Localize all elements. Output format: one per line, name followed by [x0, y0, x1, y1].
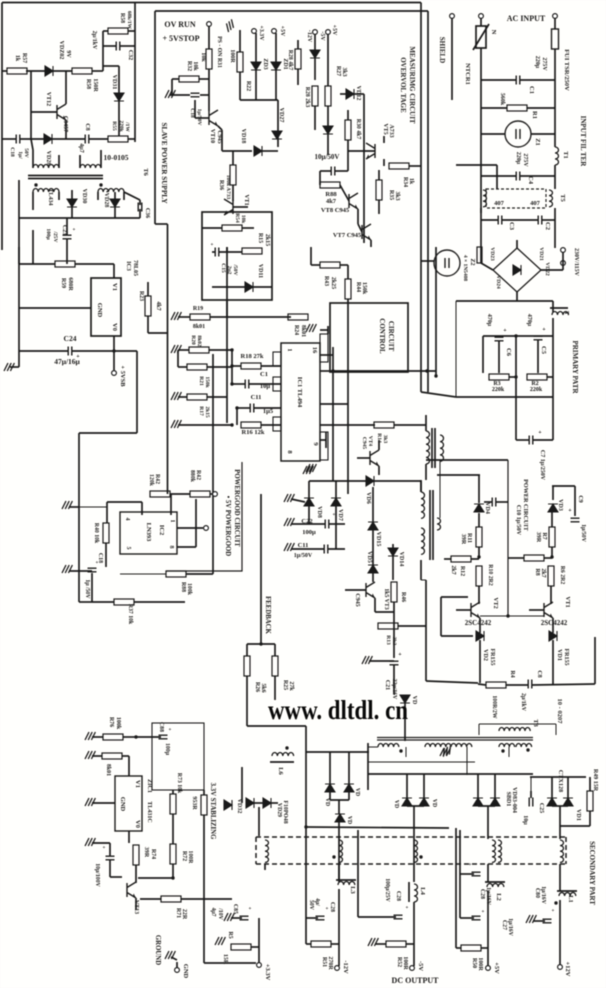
svg-text:C25: C25 [538, 803, 544, 813]
wire [542, 219, 555, 221]
svg-text:C28: C28 [479, 889, 485, 899]
svg-text:INPUT FIL TER: INPUT FIL TER [579, 116, 587, 168]
wire [246, 676, 248, 726]
wire [484, 501, 492, 503]
capacitor C28 4u/50V [316, 916, 325, 920]
svg-text:MEASURIMG CIRCUIT: MEASURIMG CIRCUIT [408, 46, 416, 124]
ground [223, 19, 236, 32]
wire [237, 407, 250, 409]
wire [530, 791, 532, 798]
svg-text:R1: R1 [531, 111, 538, 119]
wire [258, 807, 260, 836]
svg-text:100k: 100k [115, 717, 121, 730]
svg-text:OV RUN: OV RUN [164, 20, 195, 29]
svg-text:PS - ON R31: PS - ON R31 [216, 36, 222, 68]
wire [120, 45, 135, 47]
wire [333, 370, 408, 372]
svg-text:R58: R58 [119, 13, 125, 23]
wire [181, 898, 232, 900]
diode SBD1b [490, 798, 500, 806]
wire [32, 150, 34, 168]
wire [226, 247, 228, 423]
svg-text:AC INPUT: AC INPUT [507, 14, 546, 23]
wire [345, 589, 366, 591]
svg-text:C18: C18 [9, 147, 15, 157]
svg-text:100k A733: 100k A733 [225, 175, 231, 200]
wire [533, 439, 553, 441]
svg-text:C8: C8 [84, 123, 90, 130]
resistor R3 220k [489, 374, 509, 380]
resistor R42 880k [190, 491, 210, 497]
resistor R58 68k/1W [108, 28, 128, 34]
svg-text:R51: R51 [321, 957, 327, 967]
wire [567, 777, 569, 798]
diode VD29b [263, 798, 271, 808]
diode VD18 [254, 146, 262, 156]
IC U1 TL494 [281, 343, 320, 461]
wire [135, 881, 137, 883]
wire [136, 351, 138, 433]
wire [170, 94, 190, 96]
core T6 [28, 175, 103, 177]
svg-text:/10V: /10V [217, 907, 223, 920]
svg-text:+3.3V: +3.3V [258, 25, 264, 41]
resistor R58 150R [72, 68, 92, 74]
svg-text:78L05: 78L05 [132, 260, 138, 276]
svg-text:953R: 953R [191, 796, 197, 810]
wire [135, 898, 137, 910]
svg-text:C1: C1 [528, 86, 535, 94]
svg-text:R34: R34 [402, 177, 408, 187]
wire [306, 827, 449, 828]
svg-text:150k: 150k [361, 282, 367, 295]
svg-text:2μ/1kV: 2μ/1kV [91, 31, 97, 50]
wire [425, 415, 427, 431]
svg-text:R5: R5 [227, 931, 233, 938]
wire [479, 618, 481, 633]
wire [552, 318, 554, 336]
svg-text:C11: C11 [298, 542, 309, 549]
ground [362, 656, 372, 664]
varistor Z2 [434, 250, 460, 276]
wire [178, 424, 232, 426]
capacitor C18 [331, 167, 335, 176]
wire [255, 70, 257, 100]
wire [232, 185, 234, 201]
svg-text:68k/1W: 68k/1W [126, 11, 132, 30]
svg-text:8k01: 8k01 [193, 324, 205, 330]
wire [347, 151, 349, 171]
wire [437, 474, 480, 476]
box powergood [166, 462, 242, 571]
svg-text:GND: GND [119, 797, 126, 812]
wire [138, 877, 173, 879]
ground [165, 90, 175, 98]
wire [483, 335, 553, 337]
wire [555, 724, 557, 735]
node +12V [558, 965, 563, 970]
diode VD [335, 814, 345, 822]
wire [202, 227, 222, 229]
wire [589, 777, 591, 791]
svg-text:C18: C18 [189, 108, 195, 118]
svg-text:C4: C4 [527, 176, 534, 185]
svg-text:ZD3: ZD3 [262, 58, 268, 69]
svg-text:L3: L3 [349, 886, 356, 894]
diode VD5 [368, 565, 378, 573]
resistor R10 2R2 [476, 566, 482, 586]
resistor R54 10k [222, 225, 242, 231]
choke winding [265, 840, 269, 862]
wire [383, 159, 385, 166]
svg-text:4k7: 4k7 [326, 198, 337, 205]
wire [291, 548, 324, 550]
wire [393, 602, 395, 612]
ground [85, 838, 95, 846]
wire [154, 11, 156, 224]
wire [440, 597, 442, 636]
svg-text:120k: 120k [148, 474, 154, 487]
svg-text:TL434: TL434 [47, 188, 53, 205]
svg-text:R28 2k3: R28 2k3 [304, 87, 310, 108]
svg-text:R13: R13 [385, 635, 391, 645]
diode VD12 [346, 89, 354, 99]
wire [527, 107, 555, 109]
wire [487, 806, 489, 839]
junction [304, 825, 307, 828]
capacitor C8 4u7 [85, 135, 89, 144]
diode VD [400, 695, 410, 703]
wire [552, 397, 554, 440]
wire [551, 512, 553, 527]
svg-text:880k: 880k [189, 470, 195, 483]
junction [134, 735, 137, 738]
transformer T6 primary [33, 165, 59, 169]
svg-text:VT5: VT5 [382, 123, 388, 134]
svg-text:VD14: VD14 [398, 552, 404, 567]
svg-text:+: + [468, 862, 471, 868]
svg-text:LN393: LN393 [145, 523, 152, 543]
capacitor C6 470u [495, 337, 504, 341]
capacitor C18 1u/50V [88, 568, 97, 572]
coil [483, 190, 487, 207]
wire [102, 31, 104, 71]
svg-text:C1: C1 [260, 371, 268, 378]
svg-text:VD21: VD21 [538, 247, 544, 261]
resistor R72 100R [170, 844, 176, 864]
wire [297, 40, 299, 49]
svg-text:VD11: VD11 [257, 264, 263, 278]
svg-text:1μ/50V: 1μ/50V [294, 553, 313, 559]
wire [247, 725, 306, 727]
svg-text:VD30: VD30 [81, 189, 87, 204]
wire [135, 844, 137, 846]
wire [559, 900, 561, 965]
diode VD15 [368, 522, 378, 530]
wire [18, 180, 20, 264]
resistor R35 3k3 [376, 180, 382, 200]
wire [203, 790, 205, 795]
wire [260, 494, 262, 644]
wire [311, 264, 320, 266]
wire [128, 138, 135, 140]
svg-text:C3: C3 [508, 222, 515, 231]
ground [284, 543, 294, 551]
resistor R71 22R [161, 896, 181, 902]
resistor R14 3k3 [374, 422, 394, 428]
diode VD2 FR155 [476, 631, 484, 641]
wire [305, 752, 307, 827]
wire [114, 192, 116, 199]
svg-text:39R: 39R [143, 847, 149, 858]
resistor R16 12k [241, 422, 261, 428]
wire [10, 366, 19, 368]
wire [320, 424, 375, 426]
wire [554, 208, 556, 231]
wire [552, 301, 554, 312]
junction [550, 555, 553, 558]
wire [128, 831, 130, 843]
wire [320, 370, 333, 372]
svg-text:N: N [490, 30, 497, 35]
transistor VT1 A733 [224, 199, 233, 215]
wire [221, 130, 223, 151]
svg-text:+: + [551, 908, 554, 914]
svg-text:R25: R25 [282, 680, 288, 690]
wire [136, 736, 161, 738]
wire [478, 805, 495, 807]
wire [327, 106, 329, 126]
wire [306, 751, 369, 753]
svg-text:VD23: VD23 [489, 247, 495, 261]
wire [496, 165, 498, 189]
ground [171, 392, 181, 400]
svg-text:VD27: VD27 [278, 108, 284, 123]
svg-text:39R: 39R [535, 532, 541, 543]
svg-text:1k5 VT3: 1k5 VT3 [383, 588, 389, 609]
wire [408, 370, 436, 372]
wire [398, 625, 426, 627]
wire [421, 579, 426, 581]
wire [320, 354, 333, 356]
svg-text:VD22: VD22 [544, 262, 550, 276]
resistor R6 2R2 [548, 566, 554, 586]
resistor R74 39R [133, 845, 139, 865]
svg-text:VT12: VT12 [45, 92, 51, 106]
svg-text:T: T [563, 311, 570, 316]
wire [249, 383, 281, 385]
wire [262, 150, 278, 152]
wire [478, 684, 486, 685]
wire [212, 286, 245, 288]
svg-text:VD15: VD15 [375, 532, 381, 547]
diode VD4 [474, 504, 484, 512]
box [202, 212, 272, 300]
svg-text:C8: C8 [536, 670, 542, 677]
wire [478, 724, 480, 735]
resistor R73 10k [170, 794, 176, 814]
wire [19, 263, 55, 265]
wire [471, 558, 479, 560]
junction [331, 369, 334, 372]
dot [332, 855, 335, 858]
svg-text:50V: 50V [23, 148, 29, 158]
wire [554, 231, 556, 248]
wire [212, 251, 215, 253]
svg-text:407: 407 [494, 200, 505, 207]
svg-text:R30 4k7: R30 4k7 [355, 119, 361, 140]
resistor R19 8k01 [190, 314, 210, 320]
transistor VT3 C945 [366, 582, 375, 598]
wire [480, 231, 482, 263]
wire [255, 33, 257, 62]
wire [264, 864, 266, 870]
wire [407, 805, 424, 807]
wire [494, 774, 496, 798]
wire [481, 133, 505, 135]
svg-text:2k15: 2k15 [264, 234, 270, 246]
resistor R57 1k [7, 68, 27, 74]
wire [135, 865, 137, 883]
transformer T5 [486, 189, 546, 208]
wire [195, 499, 197, 547]
wire [258, 918, 260, 963]
wire [327, 134, 329, 155]
wire [79, 506, 107, 508]
svg-text:VD32: VD32 [236, 799, 242, 814]
node -12V [335, 966, 340, 971]
svg-text:ZIC1: ZIC1 [146, 779, 152, 793]
svg-text:VD: VD [324, 798, 330, 806]
wire [406, 943, 414, 945]
wire [479, 723, 556, 725]
dot [34, 183, 37, 186]
svg-text:R12: R12 [459, 566, 465, 576]
wire [172, 814, 174, 844]
diode VD7 [331, 498, 341, 506]
wire [340, 93, 346, 95]
svg-text:PRIMARY PATR: PRIMARY PATR [571, 340, 579, 394]
wire [423, 774, 425, 798]
wire [370, 240, 372, 247]
svg-text:C85: C85 [232, 904, 238, 914]
diode VD30 [67, 199, 77, 207]
wire [177, 546, 196, 548]
wire [274, 644, 276, 656]
wire [508, 747, 510, 757]
node +3.3V out [257, 963, 262, 968]
inductor L1 [559, 893, 576, 897]
wire [335, 481, 337, 498]
ground [368, 938, 378, 946]
wire [69, 506, 79, 508]
transistor VT1 2SC4242 [544, 602, 553, 618]
wire [357, 457, 370, 459]
wire [374, 598, 376, 612]
choke winding [492, 840, 496, 862]
wire [209, 349, 232, 351]
wire [305, 828, 307, 944]
svg-text:FR155: FR155 [489, 649, 495, 666]
wire [413, 902, 415, 966]
ground [62, 565, 72, 573]
wire [338, 800, 340, 814]
svg-text:1μ/16V: 1μ/16V [540, 886, 546, 905]
svg-text:R24: R24 [293, 325, 299, 335]
wire [91, 573, 93, 602]
svg-text:R59: R59 [60, 278, 66, 288]
capacitor C18 1u/50V [191, 93, 200, 97]
svg-text:R20: R20 [190, 335, 196, 345]
wire [232, 151, 234, 165]
wire [481, 175, 516, 177]
svg-text:+: + [248, 906, 251, 912]
svg-text:10k: 10k [192, 61, 198, 71]
svg-text:1μ5: 1μ5 [263, 408, 274, 415]
svg-text:A733: A733 [388, 124, 394, 137]
svg-text:8k01: 8k01 [300, 325, 306, 337]
wire [532, 684, 595, 685]
node -12V [313, 30, 318, 35]
svg-text:R71: R71 [175, 908, 181, 918]
wire [388, 165, 390, 167]
wire [554, 49, 556, 147]
svg-text:470μ: 470μ [526, 314, 532, 327]
wire [508, 557, 524, 559]
svg-text:4k7: 4k7 [155, 301, 161, 310]
wire [66, 218, 68, 235]
wire [123, 192, 125, 200]
wire [481, 219, 498, 221]
wire [320, 170, 331, 172]
svg-text:VT7 C945: VT7 C945 [333, 232, 362, 239]
svg-text:1k: 1k [14, 55, 20, 62]
svg-text:10μ/50V: 10μ/50V [315, 153, 340, 161]
svg-text:C8457: C8457 [62, 116, 68, 132]
svg-text:39R: 39R [460, 534, 466, 545]
capacitor C1 10u [245, 380, 249, 389]
wire [26, 70, 45, 72]
transistor VT5 A733 [366, 143, 375, 159]
resistor R8 2k7 [524, 555, 544, 561]
wire [2, 2, 421, 4]
wire [551, 547, 553, 557]
wire [533, 920, 545, 922]
capacitor C23 100u/25V [63, 235, 72, 239]
wire [32, 230, 34, 264]
junction [112, 349, 115, 352]
wire [420, 481, 422, 492]
wire [79, 155, 81, 168]
capacitor C10 1u/50V [492, 498, 496, 507]
svg-text:FR155: FR155 [563, 649, 569, 666]
ground [284, 518, 294, 526]
resistor R44 150k [345, 279, 351, 299]
wire [218, 126, 222, 130]
wire [177, 350, 179, 367]
svg-text:VT1: VT1 [243, 194, 249, 205]
svg-text:L4: L4 [419, 887, 426, 895]
svg-text:10 - 0207: 10 - 0207 [556, 699, 563, 725]
capacitor C22 100u [325, 520, 329, 529]
svg-text:+: + [168, 727, 171, 733]
svg-text:C945: C945 [354, 593, 360, 606]
junction [425, 369, 428, 372]
svg-text:5k6: 5k6 [260, 683, 266, 692]
dot [501, 749, 504, 752]
wire [496, 501, 508, 503]
wire [551, 507, 553, 509]
